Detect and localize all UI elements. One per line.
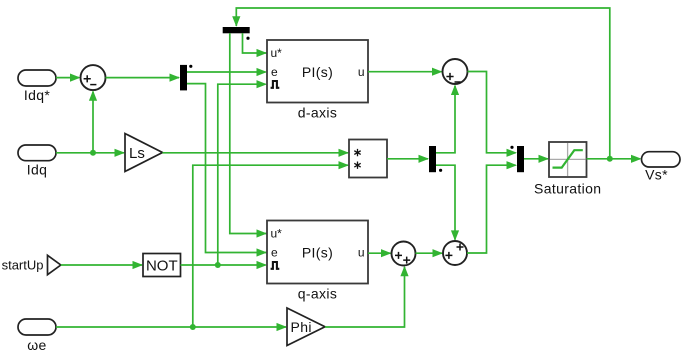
svg-text:Phi: Phi <box>291 319 312 335</box>
svg-text:Saturation: Saturation <box>534 180 601 196</box>
wire: sum1 to demux M1 <box>106 74 181 82</box>
svg-text:Idq*: Idq* <box>24 87 51 103</box>
wire: demux M1 out1 to d-axis e <box>187 68 267 76</box>
wire: NOT tap up to d-axis reset <box>218 80 267 265</box>
svg-text:u: u <box>358 65 365 79</box>
wire: sum2 out to mux M2 top input <box>468 72 518 157</box>
svg-text:e: e <box>271 245 278 259</box>
wire: demux M3 out2 down to sum4 plus <box>436 165 459 241</box>
svg-text:d-axis: d-axis <box>298 105 337 121</box>
wire: q-axis u to sum3 <box>368 249 392 257</box>
wire: Ls to product top input <box>163 149 350 157</box>
subsystem U2 q-axis PI controller <box>267 221 368 302</box>
input port omega-e (oval) <box>18 319 56 353</box>
sum junction S3 (+ +) <box>392 242 416 266</box>
wire: Phi up to sum3 plus <box>325 266 409 327</box>
input port Idq* (oval) <box>18 70 56 103</box>
svg-text:e: e <box>271 65 278 79</box>
wire: top demux out2 down to d-axis u* <box>243 33 268 57</box>
wire: d-axis u to sum2 <box>368 68 443 76</box>
mux M2 (vertical bar before saturation) <box>517 146 524 172</box>
svg-text:u*: u* <box>271 46 283 60</box>
product block P1 <box>349 140 387 178</box>
subsystem U1 d-axis PI controller <box>267 40 368 121</box>
junction: Idq feedback tap <box>90 150 96 156</box>
svg-text:Ls: Ls <box>129 145 145 162</box>
wire: demux M3 out1 up to sum2 minus <box>436 85 459 153</box>
junction: omega-e tap <box>190 324 196 330</box>
input port startUp (port arrow) <box>2 255 61 274</box>
svg-text:Vs*: Vs* <box>645 167 668 183</box>
junction: saturation output tap <box>607 156 613 162</box>
saturation block <box>534 142 601 196</box>
svg-text:PI(s): PI(s) <box>302 244 333 260</box>
svg-text:u: u <box>358 245 365 259</box>
wire: omega-e to gain Phi <box>56 323 287 331</box>
demux M3 (vertical bar after product) <box>429 146 436 172</box>
logic block NOT <box>143 254 181 277</box>
gain Phi (triangle) <box>287 308 325 346</box>
wire: top demux out1 down to q-axis u* <box>230 33 267 237</box>
sample-time dot at demux M1 <box>189 65 192 68</box>
wire: omega-e tap up to product bottom input <box>193 161 349 327</box>
sum junction S4 (+ +) <box>443 241 467 265</box>
wire: startUp to NOT <box>61 261 143 269</box>
gain Ls (triangle) <box>125 134 163 172</box>
wire: Idq to gain Ls <box>56 149 125 157</box>
svg-text:NOT: NOT <box>146 257 178 274</box>
svg-text:ωe: ωe <box>27 337 46 353</box>
input port Idq (oval) <box>18 145 56 178</box>
junction: NOT output tap <box>215 262 221 268</box>
sum junction S1 (+ -) <box>81 65 106 90</box>
svg-text:startUp: startUp <box>2 258 44 273</box>
wire: Idq tap up to sum1 minus <box>89 90 97 153</box>
wire: mux M2 to saturation <box>524 155 549 163</box>
sample-time dot at demux M3 <box>439 169 442 172</box>
wire: product out to demux M3 <box>387 155 429 163</box>
output port Vs* (oval) <box>642 152 681 183</box>
wire: sum4 out up to mux M2 bottom input <box>467 161 517 253</box>
wire: feedback from saturation output up and across top into top demux <box>232 8 610 159</box>
wire: demux M1 out2 down to q-axis e <box>187 84 267 257</box>
sample-time dot at mux M2 <box>510 146 513 149</box>
wire: Idq* to sum1 <box>56 74 81 82</box>
svg-text:u*: u* <box>271 227 283 241</box>
sample-time dot at demux D1 <box>246 37 249 40</box>
wire: NOT to q-axis reset <box>181 261 268 269</box>
svg-text:Idq: Idq <box>27 162 48 178</box>
sum junction S2 (+ -) <box>443 59 468 84</box>
svg-text:PI(s): PI(s) <box>302 64 333 80</box>
wire: sum3 to sum4 <box>416 249 444 257</box>
svg-text:q-axis: q-axis <box>298 286 337 302</box>
wire: saturation to Vs* <box>587 155 642 163</box>
demux M1 (vertical bar after sum1) <box>180 65 187 91</box>
demux D1 (top horizontal bar) <box>223 27 250 33</box>
